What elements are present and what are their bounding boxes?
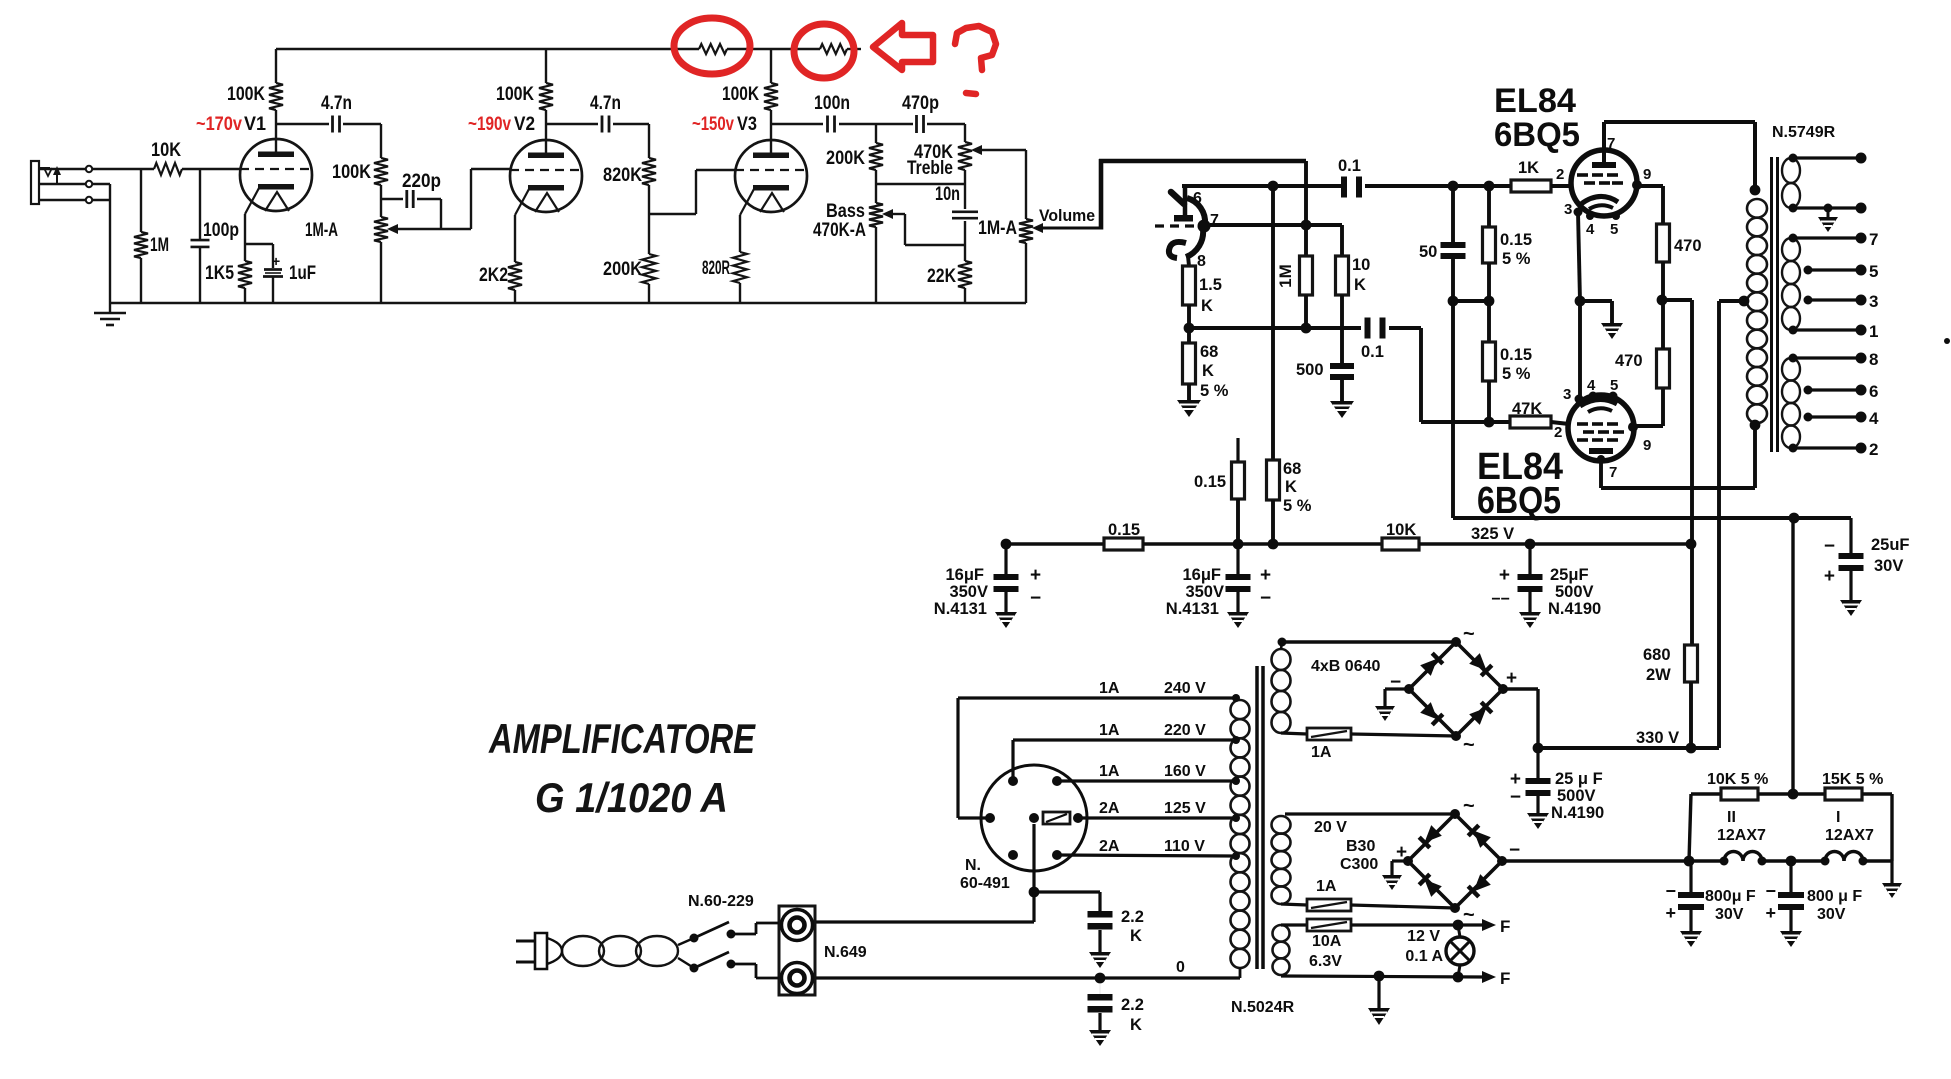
svg-text:N.4190: N.4190	[1551, 804, 1604, 822]
svg-text:200K: 200K	[826, 148, 865, 169]
svg-text:5 %: 5 %	[1502, 250, 1531, 268]
svg-text:+: +	[1765, 903, 1776, 923]
svg-text:470: 470	[1674, 237, 1702, 255]
svg-text:12AX7: 12AX7	[1717, 827, 1766, 844]
svg-text:0.15: 0.15	[1108, 521, 1140, 539]
svg-text:N.5749R: N.5749R	[1772, 124, 1836, 141]
svg-text:7: 7	[1609, 464, 1617, 481]
svg-text:5 %: 5 %	[1283, 497, 1312, 515]
svg-text:10K 5 %: 10K 5 %	[1707, 771, 1768, 788]
svg-text:I: I	[1836, 809, 1840, 826]
svg-text:8: 8	[1869, 350, 1878, 369]
svg-text:N.4131: N.4131	[934, 600, 987, 618]
svg-text:10n: 10n	[935, 184, 960, 205]
svg-text:12AX7: 12AX7	[1825, 827, 1874, 844]
svg-text:12 V: 12 V	[1407, 928, 1440, 945]
svg-text:−−: −−	[1491, 591, 1510, 608]
svg-text:47K: 47K	[1512, 400, 1542, 418]
svg-text:−: −	[1665, 881, 1676, 901]
svg-text:25uF: 25uF	[1871, 536, 1910, 554]
svg-text:+: +	[1030, 565, 1041, 586]
svg-text:N.4131: N.4131	[1166, 600, 1219, 618]
svg-text:K: K	[1201, 297, 1213, 315]
svg-text:6.3V: 6.3V	[1309, 953, 1342, 970]
svg-text:10K: 10K	[1386, 521, 1416, 539]
svg-text:0.15: 0.15	[1500, 231, 1532, 249]
svg-text:330 V: 330 V	[1636, 729, 1679, 747]
svg-text:EL84: EL84	[1494, 82, 1576, 120]
svg-text:2.2: 2.2	[1121, 996, 1144, 1014]
svg-text:10: 10	[1352, 256, 1370, 274]
svg-text:F: F	[1500, 917, 1510, 936]
svg-text:+: +	[1260, 565, 1271, 586]
svg-text:820K: 820K	[603, 165, 642, 186]
svg-text:N.5024R: N.5024R	[1231, 999, 1295, 1016]
svg-text:350V: 350V	[949, 583, 988, 601]
svg-text:−: −	[1765, 881, 1776, 901]
svg-text:8: 8	[1197, 253, 1206, 270]
svg-text:5: 5	[1869, 262, 1878, 281]
svg-text:6BQ5: 6BQ5	[1494, 116, 1580, 154]
svg-text:~: ~	[1463, 904, 1475, 926]
svg-text:2: 2	[1554, 424, 1562, 441]
svg-text:−: −	[1824, 536, 1835, 557]
svg-text:B30: B30	[1346, 838, 1375, 855]
svg-text:68: 68	[1200, 343, 1218, 361]
svg-text:1A: 1A	[1099, 680, 1120, 697]
svg-text:9: 9	[1643, 166, 1651, 183]
svg-text:500V: 500V	[1557, 787, 1596, 805]
svg-text:G 1/1020 A: G 1/1020 A	[535, 774, 728, 821]
svg-text:+: +	[1506, 668, 1517, 689]
svg-text:2A: 2A	[1099, 838, 1120, 855]
svg-text:1M-A: 1M-A	[305, 220, 338, 241]
svg-text:1M-A: 1M-A	[978, 218, 1017, 239]
svg-text:110 V: 110 V	[1164, 838, 1205, 855]
svg-text:470K-A: 470K-A	[813, 220, 866, 241]
svg-text:7: 7	[1869, 230, 1878, 249]
svg-text:6BQ5: 6BQ5	[1477, 480, 1561, 522]
svg-text:Bass: Bass	[826, 201, 865, 222]
svg-text:0.1: 0.1	[1338, 157, 1361, 175]
svg-text:0.15: 0.15	[1194, 473, 1226, 491]
svg-text:N.: N.	[965, 857, 981, 874]
svg-text:470: 470	[1615, 352, 1643, 370]
svg-text:15K 5 %: 15K 5 %	[1822, 771, 1883, 788]
svg-text:~190v: ~190v	[468, 114, 511, 135]
svg-text:68: 68	[1283, 460, 1301, 478]
svg-text:100K: 100K	[722, 84, 759, 105]
svg-text:1uF: 1uF	[289, 263, 316, 284]
svg-text:4: 4	[1586, 221, 1595, 238]
svg-text:220p: 220p	[402, 171, 441, 192]
svg-text:10K: 10K	[151, 140, 181, 161]
svg-text:325 V: 325 V	[1471, 525, 1514, 543]
svg-text:4: 4	[1587, 377, 1596, 394]
svg-text:3: 3	[1869, 292, 1878, 311]
svg-text:1.5: 1.5	[1199, 276, 1222, 294]
svg-text:4xB 0640: 4xB 0640	[1311, 658, 1380, 675]
svg-text:220 V: 220 V	[1164, 722, 1206, 739]
svg-text:−: −	[1509, 840, 1520, 861]
svg-text:2.2: 2.2	[1121, 908, 1144, 926]
svg-text:160 V: 160 V	[1164, 763, 1206, 780]
svg-text:1M: 1M	[1276, 264, 1295, 288]
svg-text:1A: 1A	[1316, 878, 1337, 895]
svg-text:~: ~	[1463, 795, 1475, 817]
svg-text:350V: 350V	[1185, 583, 1224, 601]
svg-text:25 μ F: 25 μ F	[1555, 770, 1603, 788]
svg-text:N.649: N.649	[824, 944, 867, 961]
svg-text:V1: V1	[244, 114, 266, 135]
svg-text:K: K	[1202, 362, 1214, 380]
svg-text:500: 500	[1296, 361, 1324, 379]
svg-text:5 %: 5 %	[1200, 382, 1229, 400]
svg-text:~150v: ~150v	[692, 114, 734, 135]
svg-text:2K2: 2K2	[479, 265, 508, 286]
svg-text:V2: V2	[514, 114, 535, 135]
svg-text:2: 2	[1869, 440, 1878, 459]
svg-text:F: F	[1500, 969, 1510, 988]
svg-text:C300: C300	[1340, 856, 1378, 873]
svg-text:3: 3	[1563, 386, 1571, 403]
svg-text:800 μ F: 800 μ F	[1807, 888, 1862, 905]
svg-text:5: 5	[1610, 221, 1618, 238]
svg-text:100K: 100K	[227, 84, 265, 105]
svg-text:3: 3	[1564, 201, 1572, 218]
svg-text:+: +	[1499, 565, 1510, 586]
svg-text:5 %: 5 %	[1502, 365, 1531, 383]
svg-text:AMPLIFICATORE: AMPLIFICATORE	[488, 715, 756, 762]
svg-text:240 V: 240 V	[1164, 680, 1206, 697]
svg-text:680: 680	[1643, 646, 1671, 664]
svg-text:Treble: Treble	[907, 158, 953, 179]
svg-text:+: +	[1824, 566, 1835, 587]
svg-text:1M: 1M	[150, 235, 169, 256]
svg-text:100n: 100n	[814, 93, 850, 114]
svg-text:0.1: 0.1	[1361, 343, 1384, 361]
svg-text:16μF: 16μF	[945, 566, 984, 584]
svg-text:10A: 10A	[1312, 933, 1342, 950]
svg-text:9: 9	[1643, 437, 1651, 454]
svg-text:50: 50	[1419, 243, 1437, 261]
svg-text:1A: 1A	[1311, 744, 1332, 761]
svg-text:0.15: 0.15	[1500, 346, 1532, 364]
svg-text:4.7n: 4.7n	[321, 93, 352, 114]
svg-text:−: −	[1030, 588, 1041, 609]
svg-text:0: 0	[1176, 959, 1185, 976]
svg-text:7: 7	[1607, 135, 1615, 152]
svg-text:800μ F: 800μ F	[1705, 888, 1756, 905]
svg-text:K: K	[1130, 1016, 1142, 1034]
svg-text:25μF: 25μF	[1550, 566, 1589, 584]
svg-text:500V: 500V	[1555, 583, 1594, 601]
svg-text:30V: 30V	[1715, 906, 1744, 923]
svg-text:II: II	[1727, 809, 1736, 826]
svg-text:1: 1	[1869, 322, 1878, 341]
svg-text:K: K	[1130, 927, 1142, 945]
svg-text:0.1 A: 0.1 A	[1405, 948, 1443, 965]
svg-text:470p: 470p	[902, 93, 939, 114]
svg-text:6: 6	[1193, 190, 1202, 207]
svg-text:4.7n: 4.7n	[590, 93, 621, 114]
svg-text:30V: 30V	[1817, 906, 1846, 923]
svg-text:100K: 100K	[496, 84, 534, 105]
svg-text:200K: 200K	[603, 259, 642, 280]
svg-text:16μF: 16μF	[1182, 566, 1221, 584]
svg-text:~: ~	[1463, 734, 1475, 756]
svg-text:20 V: 20 V	[1314, 819, 1347, 836]
svg-text:~: ~	[1463, 623, 1475, 645]
svg-text:100K: 100K	[332, 162, 371, 183]
svg-text:−: −	[1260, 588, 1271, 609]
svg-text:2A: 2A	[1099, 800, 1120, 817]
svg-text:30V: 30V	[1874, 557, 1903, 575]
svg-text:100p: 100p	[203, 220, 239, 241]
svg-text:22K: 22K	[927, 266, 956, 287]
svg-text:1A: 1A	[1099, 763, 1120, 780]
svg-text:125 V: 125 V	[1164, 800, 1206, 817]
svg-text:1A: 1A	[1099, 722, 1120, 739]
svg-text:K: K	[1354, 276, 1366, 294]
svg-text:~170v: ~170v	[196, 114, 242, 135]
svg-text:2W: 2W	[1646, 666, 1671, 684]
svg-text:V3: V3	[737, 114, 757, 135]
svg-text:+: +	[272, 253, 280, 269]
svg-text:6: 6	[1869, 382, 1878, 401]
svg-text:Volume: Volume	[1039, 206, 1095, 225]
svg-text:4: 4	[1869, 409, 1879, 428]
svg-text:−: −	[1510, 787, 1521, 808]
svg-text:N.4190: N.4190	[1548, 600, 1601, 618]
svg-text:2: 2	[1556, 166, 1564, 183]
svg-text:60-491: 60-491	[960, 875, 1010, 892]
svg-text:820R: 820R	[702, 258, 730, 279]
svg-text:N.60-229: N.60-229	[688, 893, 754, 910]
svg-text:5: 5	[1610, 377, 1618, 394]
svg-text:1K5: 1K5	[205, 263, 234, 284]
svg-text:+: +	[1665, 903, 1676, 923]
svg-text:1K: 1K	[1518, 159, 1539, 177]
svg-text:K: K	[1285, 478, 1297, 496]
